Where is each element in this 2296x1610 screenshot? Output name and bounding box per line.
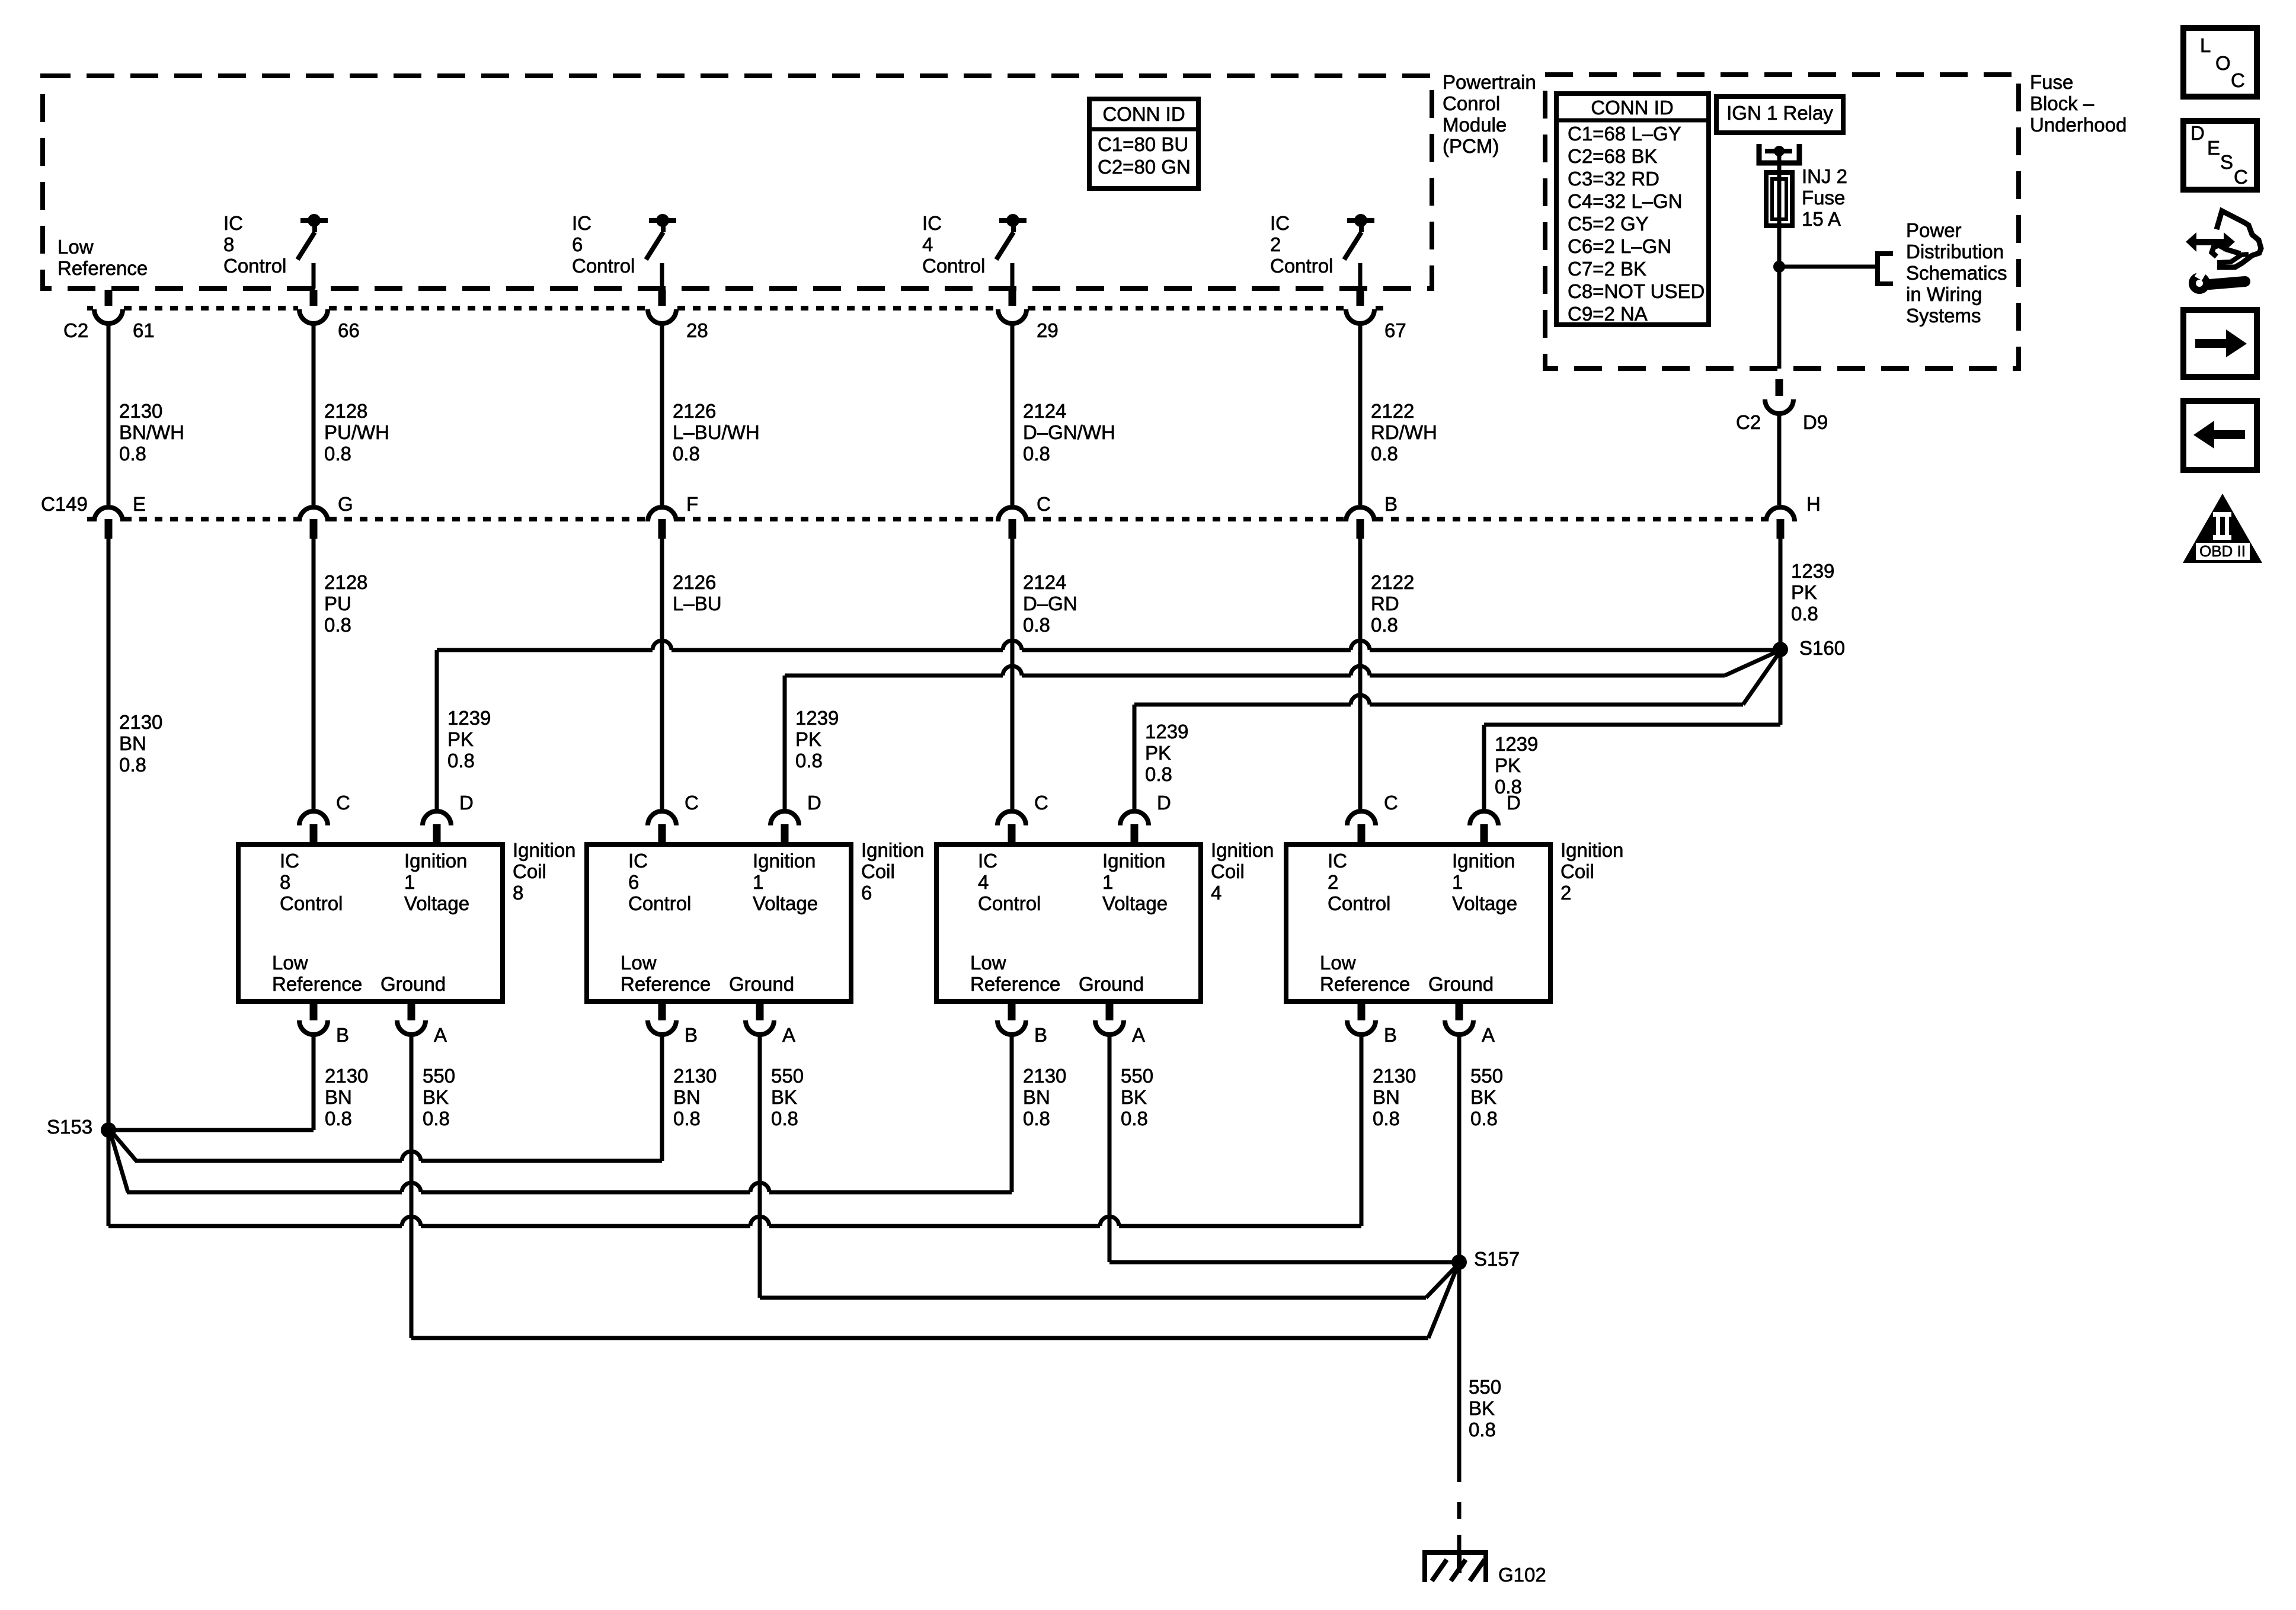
svg-text:F: F (686, 493, 698, 515)
coil 2 pin B connector (1347, 1001, 1376, 1035)
connector C2 pin 29 (male stub + female cup) (998, 290, 1027, 324)
wire coil 6 pin A to S157 (760, 1035, 1457, 1298)
svg-text:A: A (434, 1024, 447, 1046)
label S153 (47, 1116, 92, 1138)
svg-text:Ignition: Ignition (1560, 839, 1623, 861)
svg-text:550: 550 (1121, 1065, 1153, 1087)
wire label 2128 PU/WH 0.8 (324, 400, 389, 465)
svg-text:C: C (1034, 792, 1048, 814)
svg-text:550: 550 (423, 1065, 455, 1087)
coil 6 pin A connector (746, 1001, 774, 1035)
svg-text:IC: IC (1270, 212, 1290, 234)
wire label 2130 BN 0.8 (coil 4 B) (1023, 1065, 1066, 1129)
LOC icon box (2183, 28, 2257, 97)
wire label 2122 RD (below C149) (1371, 571, 1414, 636)
svg-text:Low: Low (57, 236, 94, 258)
pin letter C (coil 2) (1384, 792, 1398, 814)
svg-text:550: 550 (1470, 1065, 1503, 1087)
svg-text:0.8: 0.8 (1470, 1108, 1498, 1129)
connector C2 pin 67 (male stub + female cup) (1346, 290, 1374, 324)
svg-text:2128: 2128 (324, 571, 367, 593)
svg-text:Control: Control (280, 892, 343, 914)
ignition coil 4 box (936, 844, 1201, 1001)
Powertrain Control Module (PCM) dashed enclosure (43, 76, 1432, 289)
svg-text:Coil: Coil (1560, 860, 1594, 882)
pin letter D (coil 6) (807, 792, 821, 814)
svg-text:Reference: Reference (272, 973, 362, 995)
coil 8 pin C connector (299, 811, 328, 844)
next-page arrow icon (2183, 310, 2257, 377)
svg-text:0.8: 0.8 (771, 1108, 798, 1129)
svg-text:A: A (1482, 1024, 1495, 1046)
label C149 (41, 493, 88, 515)
svg-text:BK: BK (423, 1086, 449, 1108)
coil 8 pin A connector (397, 1001, 426, 1035)
label Power Distribution Schematics in Wiring Systems (1906, 219, 2007, 327)
svg-text:Ignition: Ignition (404, 850, 467, 872)
svg-text:2: 2 (1270, 233, 1281, 255)
svg-text:BN: BN (119, 732, 146, 754)
ignition coil 2 box (1286, 844, 1550, 1001)
svg-text:D–GN: D–GN (1023, 593, 1077, 614)
svg-text:Control: Control (223, 255, 286, 277)
svg-text:Reference: Reference (621, 973, 711, 995)
svg-text:1: 1 (404, 871, 415, 893)
svg-text:IC: IC (1328, 850, 1347, 872)
svg-text:Ground: Ground (380, 973, 446, 995)
svg-text:C2: C2 (1736, 411, 1761, 433)
OBD II warning triangle (2183, 494, 2262, 563)
wire coil 4 pin B to S153 (111, 1035, 1012, 1192)
svg-text:PU/WH: PU/WH (324, 421, 389, 443)
pin number 67 (1384, 319, 1406, 341)
pin letter C (coil 8) (336, 792, 350, 814)
PCM name label (1443, 71, 1536, 157)
svg-text:E: E (133, 493, 146, 515)
svg-text:L–BU/WH: L–BU/WH (673, 421, 760, 443)
svg-text:B: B (1384, 1024, 1397, 1046)
svg-text:Low: Low (1320, 952, 1356, 974)
svg-text:C2=80 GN: C2=80 GN (1098, 156, 1191, 178)
wire label 2130 BN 0.8 (coil 8 B) (325, 1065, 368, 1129)
pin letter A (coil 6) (782, 1024, 795, 1046)
svg-text:BK: BK (1121, 1086, 1147, 1108)
fuse block CONN ID entries (1568, 123, 1705, 325)
svg-text:BK: BK (771, 1086, 797, 1108)
svg-text:61: 61 (133, 319, 155, 341)
svg-text:0.8: 0.8 (1371, 614, 1398, 636)
svg-text:0.8: 0.8 (324, 614, 351, 636)
switch IC 4 Control (driver inside PCM) (996, 214, 1027, 289)
coil 8 low reference label (272, 952, 362, 995)
svg-text:D9: D9 (1803, 411, 1828, 433)
connector row C2 dotted line (87, 306, 1384, 311)
PCM CONN ID entries (1098, 133, 1191, 178)
IGN 1 Relay label (1726, 102, 1833, 124)
svg-text:2122: 2122 (1371, 571, 1414, 593)
coil 8 IC control label (280, 850, 343, 914)
ignition coil 8 box (238, 844, 503, 1001)
svg-text:2130: 2130 (325, 1065, 368, 1087)
connector C2 pin 28 (male stub + female cup) (648, 290, 676, 324)
wire label 2130 BN 0.8 (119, 711, 162, 776)
pin letter B (coil 8) (336, 1024, 349, 1046)
dashed continuation of ground wire (1457, 1502, 1462, 1551)
svg-text:4: 4 (978, 871, 989, 893)
pin letter C (1037, 493, 1051, 515)
svg-text:IC: IC (572, 212, 591, 234)
splice S160 (1773, 642, 1788, 657)
fuse block CONN ID table box (1556, 94, 1709, 325)
svg-text:C9=2 NA: C9=2 NA (1568, 303, 1648, 325)
wire label 2122 RD/WH 0.8 (1371, 400, 1437, 465)
svg-text:Voltage: Voltage (1102, 892, 1168, 914)
label S160 (1799, 637, 1845, 659)
svg-text:D: D (2191, 122, 2205, 144)
wire label 550 BK 0.8 (coil 6 A) (771, 1065, 804, 1129)
svg-text:E: E (2207, 137, 2220, 159)
switch IC 8 Control (driver inside PCM) (298, 214, 328, 289)
svg-text:C8=NOT USED: C8=NOT USED (1568, 280, 1705, 302)
svg-text:1239: 1239 (447, 707, 491, 729)
svg-text:1239: 1239 (1495, 733, 1538, 755)
wire from C149 to ignition coil 6 IC control pin C (660, 539, 664, 811)
coil 6 ground label (729, 973, 794, 995)
svg-text:Fuse: Fuse (1802, 187, 1845, 209)
svg-text:0.8: 0.8 (423, 1108, 450, 1129)
svg-text:28: 28 (686, 319, 708, 341)
svg-text:Ground: Ground (729, 973, 794, 995)
svg-text:C: C (1384, 792, 1398, 814)
coil 4 pin D connector (1120, 811, 1149, 844)
wire label 1239 PK 0.8 (coil 8 D) (447, 707, 491, 772)
wire 2124 D-GN/WH 0.8 (C2 to C149) (1011, 324, 1015, 505)
connector C149 pin F (female cup + male stub) (648, 507, 676, 539)
wire 1239 PK (D9 to C149 H) (1777, 414, 1782, 505)
wire coil 8 pin B to S153 (108, 1035, 314, 1130)
wire junction to power distribution bracket (1779, 265, 1878, 269)
svg-text:Distribution: Distribution (1906, 241, 2004, 263)
svg-text:2130: 2130 (119, 711, 162, 733)
svg-text:Schematics: Schematics (1906, 262, 2007, 284)
svg-text:4: 4 (922, 233, 933, 255)
coil 4 ground label (1079, 973, 1144, 995)
pin number 29 (1037, 319, 1059, 341)
svg-text:IGN 1 Relay: IGN 1 Relay (1726, 102, 1833, 124)
switch IC 2 Control (driver inside PCM) (1344, 214, 1374, 289)
svg-text:Conrol: Conrol (1443, 92, 1500, 114)
wire label 1239 PK 0.8 (coil 4 D) (1145, 721, 1188, 785)
svg-text:Control: Control (628, 892, 691, 914)
svg-text:CONN ID: CONN ID (1591, 97, 1673, 119)
label Ignition Coil 8 (513, 839, 575, 904)
svg-text:4: 4 (1211, 882, 1221, 904)
svg-text:2130: 2130 (119, 400, 162, 422)
svg-text:0.8: 0.8 (673, 443, 700, 465)
label G102 (1498, 1564, 1546, 1586)
svg-text:PK: PK (1145, 742, 1171, 764)
svg-text:8: 8 (513, 882, 523, 904)
bus wire 1239 PK to coil 8 pin D (437, 641, 1780, 811)
fuse block CONN ID title (1591, 97, 1673, 119)
PCM CONN ID table box (1089, 99, 1198, 188)
svg-text:A: A (782, 1024, 795, 1046)
svg-text:6: 6 (861, 882, 872, 904)
coil 4 pin A connector (1095, 1001, 1124, 1035)
fuse block name label (2030, 71, 2126, 136)
svg-text:in Wiring: in Wiring (1906, 283, 1982, 305)
wire coil 8 pin A to S157 (411, 1035, 1457, 1338)
svg-text:BN: BN (1023, 1086, 1050, 1108)
coil 4 pin C connector (997, 811, 1026, 844)
svg-text:BK: BK (1469, 1397, 1495, 1419)
coil 6 pin B connector (648, 1001, 676, 1035)
bus wire 1239 PK to coil 6 pin D (785, 652, 1777, 811)
svg-text:29: 29 (1037, 319, 1059, 341)
connector C2 pin 61 (male stub + female cup) (94, 290, 123, 324)
svg-text:2124: 2124 (1023, 571, 1066, 593)
coil 4 IC control label (978, 850, 1041, 914)
pin letter D (coil 4) (1157, 792, 1171, 814)
label D9 (1803, 411, 1828, 433)
svg-text:2: 2 (1328, 871, 1338, 893)
wire from C149 to ignition coil 2 IC control pin C (1358, 539, 1363, 811)
coil 2 pin D connector (1470, 811, 1498, 844)
pin letter G (338, 493, 353, 515)
svg-text:Ignition: Ignition (1211, 839, 1274, 861)
svg-text:Coil: Coil (861, 860, 895, 882)
svg-text:L–BU: L–BU (673, 593, 722, 614)
pin letter A (coil 8) (434, 1024, 447, 1046)
wire fuse to junction and down (1777, 226, 1782, 369)
wire from C149 to ignition coil 8 IC control pin C (312, 539, 316, 811)
coil 2 ground label (1428, 973, 1494, 995)
connector C149 pin E (female cup + male stub) (94, 507, 123, 539)
wire label 550 BK 0.8 (coil 2 A) (1470, 1065, 1503, 1129)
svg-text:D: D (1507, 792, 1521, 814)
svg-text:8: 8 (223, 233, 234, 255)
PCM CONN ID title (1102, 103, 1185, 125)
svg-text:2126: 2126 (673, 400, 716, 422)
wire label 2124 D–GN (below C149) (1023, 571, 1077, 636)
svg-text:BN: BN (325, 1086, 352, 1108)
svg-text:Control: Control (922, 255, 985, 277)
svg-text:OBD II: OBD II (2199, 542, 2246, 560)
connector C2 pin D9 (fuse block output) (1765, 379, 1793, 414)
svg-text:PK: PK (1791, 581, 1817, 603)
svg-text:Ignition: Ignition (513, 839, 575, 861)
coil 6 low reference label (621, 952, 711, 995)
wire label 2130 BN 0.8 (coil 6 B) (673, 1065, 717, 1129)
pin letter B (coil 4) (1034, 1024, 1047, 1046)
svg-text:IC: IC (978, 850, 997, 872)
svg-text:G: G (338, 493, 353, 515)
connector C149 pin G (female cup + male stub) (299, 507, 328, 539)
svg-text:0.8: 0.8 (1791, 603, 1818, 625)
svg-text:Control: Control (1270, 255, 1333, 277)
IGN 1 Relay box (1716, 97, 1843, 133)
connector C149 pin B (female cup + male stub) (1346, 507, 1374, 539)
svg-text:S160: S160 (1799, 637, 1845, 659)
svg-text:1239: 1239 (795, 707, 839, 729)
label S157 (1474, 1248, 1520, 1270)
svg-text:PK: PK (1495, 754, 1521, 776)
svg-text:0.8: 0.8 (447, 750, 475, 772)
coil 6 IC control label (628, 850, 691, 914)
wire 2128 PU/WH 0.8 (C2 to C149) (312, 324, 316, 505)
pin label Low Reference (57, 236, 148, 279)
svg-text:0.8: 0.8 (1023, 614, 1050, 636)
svg-text:O: O (2215, 52, 2231, 74)
svg-text:S: S (2220, 151, 2233, 173)
pin number 61 (133, 319, 155, 341)
svg-text:Voltage: Voltage (1452, 892, 1517, 914)
wire coil 2 pin A through S157 to ground (1457, 1035, 1462, 1482)
svg-text:Block –: Block – (2030, 92, 2094, 114)
wire label 2128 PU (below C149) (324, 571, 367, 636)
svg-text:6: 6 (572, 233, 583, 255)
coil 6 ignition voltage label (753, 850, 818, 914)
connector C149 pin H (1766, 507, 1795, 539)
svg-text:D: D (459, 792, 474, 814)
label IC 2 Control (1270, 212, 1333, 277)
svg-text:C6=2 L–GN: C6=2 L–GN (1568, 235, 1671, 257)
svg-text:1239: 1239 (1791, 560, 1834, 582)
svg-text:2130: 2130 (1373, 1065, 1416, 1087)
connector C149 pin C (female cup + male stub) (998, 507, 1027, 539)
pin number 66 (338, 319, 360, 341)
svg-text:Low: Low (272, 952, 308, 974)
svg-text:IC: IC (628, 850, 648, 872)
coil 8 pin B connector (299, 1001, 328, 1035)
svg-text:BN/WH: BN/WH (119, 421, 184, 443)
wire coil 6 pin B to S153 (113, 1035, 662, 1161)
DESC icon box (2183, 121, 2257, 190)
pin letter C (coil 6) (685, 792, 699, 814)
svg-text:2124: 2124 (1023, 400, 1066, 422)
pin letter E (133, 493, 146, 515)
svg-text:C2=68 BK: C2=68 BK (1568, 145, 1657, 167)
wire label 1239 PK 0.8 (coil 6 D) (795, 707, 839, 772)
switch IC 6 Control (driver inside PCM) (646, 214, 676, 289)
bus wire 1239 PK to coil 4 pin D (1134, 654, 1779, 811)
pin letter A (coil 2) (1482, 1024, 1495, 1046)
coil 2 pin C connector (1347, 811, 1376, 844)
connector C2 pin 66 (male stub + female cup) (299, 290, 328, 324)
svg-text:Underhood: Underhood (2030, 114, 2126, 136)
wire 2126 L-BU/WH 0.8 (C2 to C149) (660, 324, 664, 505)
svg-text:L: L (2200, 34, 2211, 56)
svg-text:67: 67 (1384, 319, 1406, 341)
svg-text:RD/WH: RD/WH (1371, 421, 1437, 443)
wire label 550 BK 0.8 (ground feed) (1469, 1376, 1501, 1441)
svg-text:2122: 2122 (1371, 400, 1414, 422)
svg-text:1: 1 (753, 871, 763, 893)
svg-text:IC: IC (280, 850, 299, 872)
coil 8 pin D connector (423, 811, 451, 844)
pin letter C (coil 4) (1034, 792, 1048, 814)
svg-text:2130: 2130 (673, 1065, 717, 1087)
Fuse Block - Underhood dashed enclosure (1545, 75, 2019, 369)
wire label 550 BK 0.8 (coil 8 A) (423, 1065, 455, 1129)
svg-text:1: 1 (1452, 871, 1463, 893)
coil 4 ignition voltage label (1102, 850, 1168, 914)
wire label 550 BK 0.8 (coil 4 A) (1121, 1065, 1153, 1129)
label IC 4 Control (922, 212, 985, 277)
svg-text:1: 1 (1102, 871, 1113, 893)
coil 6 pin D connector (770, 811, 799, 844)
pin letter D (coil 8) (459, 792, 474, 814)
ground G102 symbol (1422, 1553, 1488, 1582)
wire 1239 PK 0.8 (pin H down to S160) (1779, 539, 1783, 649)
svg-text:0.8: 0.8 (1371, 443, 1398, 465)
svg-text:D: D (1157, 792, 1171, 814)
svg-text:0.8: 0.8 (119, 754, 146, 776)
svg-text:IC: IC (223, 212, 243, 234)
svg-text:C2: C2 (63, 319, 88, 341)
wire 2130 BN 0.8 (pin E down to S153) (107, 539, 111, 1130)
ignition coil 6 box (587, 844, 851, 1001)
coil 8 ground label (380, 973, 446, 995)
pin letter H (1806, 493, 1821, 515)
svg-text:PK: PK (795, 728, 821, 750)
svg-text:Reference: Reference (1320, 973, 1410, 995)
svg-text:RD: RD (1371, 593, 1399, 614)
wire label 2126 L–BU (below C149) (673, 571, 722, 614)
svg-text:C: C (1037, 493, 1051, 515)
pin number 28 (686, 319, 708, 341)
svg-text:C4=32 L–GN: C4=32 L–GN (1568, 190, 1683, 212)
label Ignition Coil 6 (861, 839, 924, 904)
previous-page arrow icon (2183, 401, 2257, 470)
connector row C149 dotted line (87, 517, 1765, 521)
wire label 2130 BN 0.8 (coil 2 B) (1373, 1065, 1416, 1129)
svg-text:CONN ID: CONN ID (1102, 103, 1185, 125)
splice S157 (1451, 1254, 1467, 1270)
svg-text:Voltage: Voltage (404, 892, 469, 914)
svg-text:0.8: 0.8 (119, 443, 146, 465)
svg-text:C: C (2234, 166, 2248, 188)
pin letter F (686, 493, 698, 515)
svg-text:6: 6 (628, 871, 639, 893)
coil 6 pin C connector (648, 811, 676, 844)
svg-text:0.8: 0.8 (1469, 1419, 1496, 1441)
wire label 1239 PK 0.8 (H feed) (1791, 560, 1834, 625)
svg-text:2126: 2126 (673, 571, 716, 593)
label Ignition Coil 4 (1211, 839, 1274, 904)
svg-text:B: B (1384, 493, 1398, 515)
coil 4 pin B connector (997, 1001, 1026, 1035)
junction dot in fuse block (1773, 261, 1785, 273)
svg-text:BN: BN (673, 1086, 701, 1108)
svg-text:1239: 1239 (1145, 721, 1188, 742)
svg-text:S157: S157 (1474, 1248, 1520, 1270)
label INJ 2 Fuse 15 A (1802, 165, 1847, 230)
svg-text:2130: 2130 (1023, 1065, 1066, 1087)
svg-text:Voltage: Voltage (753, 892, 818, 914)
svg-text:C149: C149 (41, 493, 88, 515)
svg-text:Low: Low (970, 952, 1006, 974)
svg-text:BK: BK (1470, 1086, 1496, 1108)
svg-text:Powertrain: Powertrain (1443, 71, 1536, 93)
svg-text:2: 2 (1560, 882, 1571, 904)
svg-text:0.8: 0.8 (673, 1108, 701, 1129)
coil 8 ignition voltage label (404, 850, 469, 914)
fuse INJ 2 15 A symbol (1766, 172, 1792, 226)
wire 2130 BN/WH 0.8 (C2 to C149) (107, 324, 111, 505)
svg-text:C1=80 BU: C1=80 BU (1098, 133, 1188, 155)
svg-text:C5=2 GY: C5=2 GY (1568, 213, 1649, 235)
